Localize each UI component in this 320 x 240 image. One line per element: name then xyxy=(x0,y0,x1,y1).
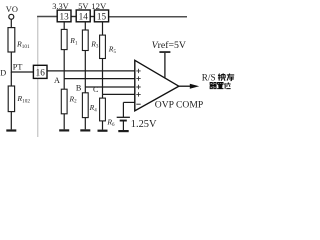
resistor R2 xyxy=(61,89,77,114)
box 13 xyxy=(57,10,71,22)
svg-text:15: 15 xyxy=(97,12,107,22)
glyph suo xyxy=(218,73,225,80)
power rail top xyxy=(37,16,187,18)
resistor R101 xyxy=(8,28,30,52)
resistor R1 xyxy=(61,29,78,49)
wire D to R102 xyxy=(10,72,12,86)
svg-text:D: D xyxy=(0,68,6,77)
wire D to box 16 xyxy=(11,71,33,73)
output wire with arrow xyxy=(179,84,199,89)
svg-text:B: B xyxy=(76,83,82,92)
wire R4 to ground xyxy=(84,118,86,130)
glyph qi xyxy=(210,83,217,89)
box 16 xyxy=(33,65,47,78)
label R/S latch set line2 xyxy=(210,82,231,88)
wire box15 to R5 xyxy=(102,22,104,35)
svg-text:C: C xyxy=(93,85,99,94)
label R/S latch set line1 xyxy=(202,73,234,83)
comparator OVP COMP xyxy=(135,60,179,111)
terminal VO xyxy=(6,5,18,19)
wire R1 to node A xyxy=(63,50,65,79)
wire B line to comparator xyxy=(85,86,135,88)
wire inverting input from 1.25V xyxy=(123,102,134,117)
wire R102 to ground xyxy=(10,112,12,130)
wire C line to comparator xyxy=(103,93,135,95)
wire R5 to node C xyxy=(102,59,104,95)
resistor R5 xyxy=(100,35,117,58)
wire A line to comparator xyxy=(64,78,135,80)
wire VO to R101 xyxy=(10,19,12,27)
wire R3 to node B xyxy=(84,51,86,88)
wire box13 to R1 xyxy=(63,22,65,30)
box 14 xyxy=(76,10,90,22)
wire R2 to ground xyxy=(63,114,65,130)
resistor R4 xyxy=(82,93,97,118)
Vref supply terminal xyxy=(152,40,186,78)
resistor R3 xyxy=(82,30,98,51)
svg-text:14: 14 xyxy=(79,12,89,22)
wire R6 to ground xyxy=(102,121,104,130)
svg-text:Vref=5V: Vref=5V xyxy=(152,40,186,51)
wire node B to R4 xyxy=(84,87,86,93)
ground xyxy=(6,129,16,131)
svg-text:R/S: R/S xyxy=(202,73,216,83)
ground xyxy=(80,129,90,131)
svg-text:13: 13 xyxy=(60,12,70,22)
svg-text:PT: PT xyxy=(13,63,23,72)
box 15 xyxy=(94,10,108,22)
svg-text:OVP COMP: OVP COMP xyxy=(155,100,203,111)
wire node C to R6 xyxy=(102,94,104,98)
ground xyxy=(98,130,108,132)
resistor R102 xyxy=(8,86,30,112)
wire R101 to node D xyxy=(10,52,12,73)
wire node A to R2 xyxy=(63,79,65,90)
grey fold line xyxy=(37,16,39,137)
ground xyxy=(118,130,128,132)
resistor R6 xyxy=(100,98,115,128)
glyph zhi xyxy=(217,82,223,88)
glyph wei xyxy=(225,82,231,88)
svg-text:A: A xyxy=(54,76,60,85)
svg-text:VO: VO xyxy=(6,5,18,14)
glyph cun xyxy=(227,74,234,81)
wire box14 to R3 xyxy=(84,22,86,30)
battery 1.25V xyxy=(117,117,157,130)
ground xyxy=(59,129,69,131)
svg-text:1.25V: 1.25V xyxy=(131,119,157,130)
wire D line box16 to comparator xyxy=(47,70,135,72)
svg-text:16: 16 xyxy=(36,67,46,77)
